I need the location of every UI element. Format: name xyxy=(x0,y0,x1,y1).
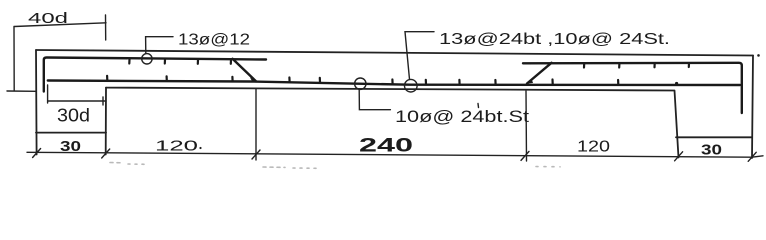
svg-text:120: 120 xyxy=(577,139,610,156)
svg-text:13ø@24bt ,10ø@ 24St.: 13ø@24bt ,10ø@ 24St. xyxy=(439,31,670,48)
svg-text:30: 30 xyxy=(701,142,722,159)
svg-text:10ø@ 24bt.St: 10ø@ 24bt.St xyxy=(395,108,530,126)
svg-text:120: 120 xyxy=(155,138,198,155)
svg-text:30: 30 xyxy=(60,138,81,155)
svg-text:40d: 40d xyxy=(28,11,68,27)
svg-text:13ø@12: 13ø@12 xyxy=(178,32,250,49)
svg-text:30d: 30d xyxy=(57,106,90,126)
svg-text:240: 240 xyxy=(359,136,413,157)
